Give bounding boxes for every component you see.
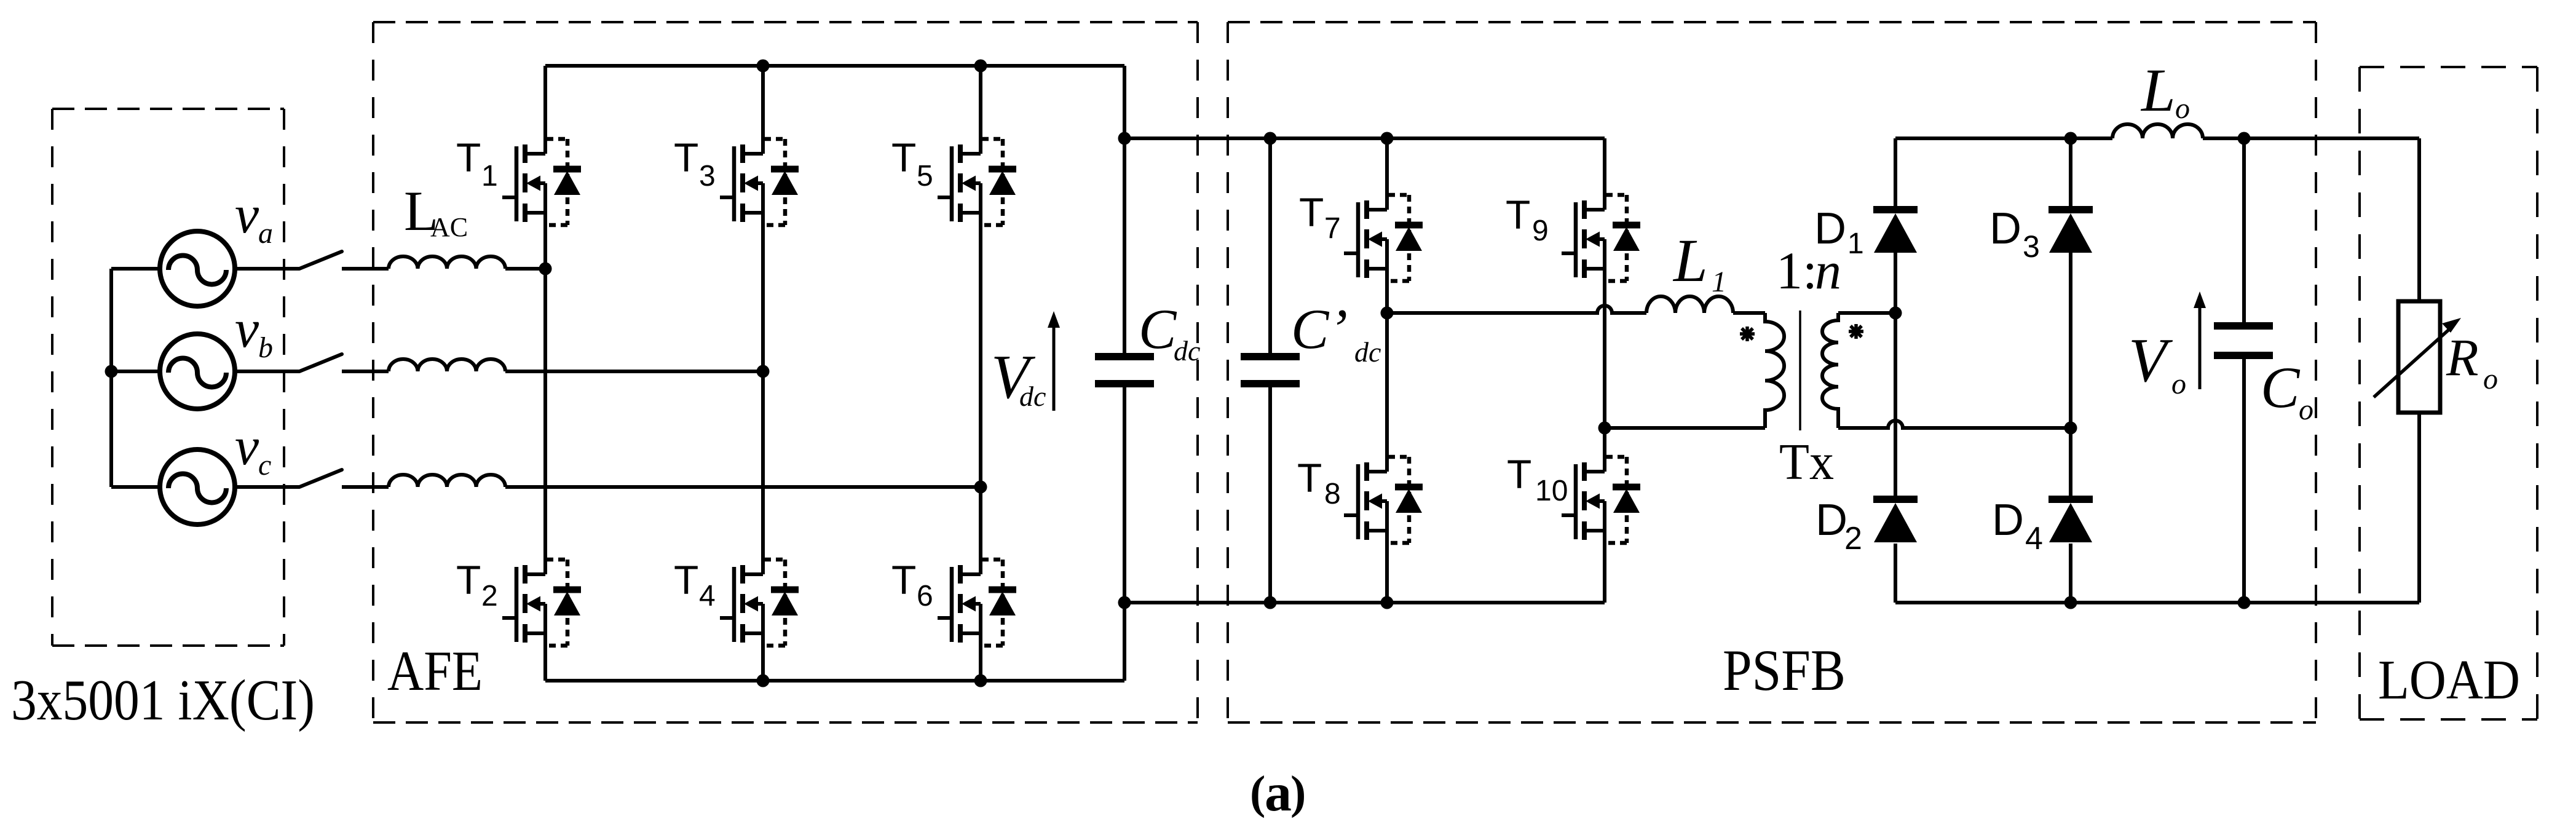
svg-text:D: D [1989, 204, 2021, 253]
transistor T10 (MOSFET) [1562, 457, 1640, 543]
svg-text:a: a [258, 217, 273, 250]
junction: bottom bus at T6 leg [974, 675, 987, 687]
label Vdc with arrow [1053, 325, 1056, 411]
svg-text:C’: C’ [1291, 298, 1348, 360]
svg-text:dc: dc [1019, 381, 1046, 412]
wire: rectifier bottom rail [1895, 601, 2419, 604]
svg-text:1: 1 [481, 160, 498, 192]
svg-text:dc: dc [1174, 335, 1200, 366]
svg-text:T: T [1506, 192, 1530, 237]
transformer core [1799, 311, 1801, 430]
wire: Co leg [2242, 138, 2246, 603]
transistor T5 (MOSFET) [938, 139, 1016, 225]
svg-text:T: T [891, 557, 916, 603]
svg-text:D: D [1992, 496, 2024, 545]
transistor T6 (MOSFET) [938, 560, 1016, 646]
wire: LAC a to bridge leg [505, 267, 545, 271]
wire: D3/D4 leg [2069, 138, 2072, 603]
junction: phase c node [974, 481, 987, 494]
svg-text:b: b [258, 331, 273, 364]
wire: C'dc leg [1268, 138, 1272, 603]
wire: T1/T2 bridge leg [543, 66, 547, 681]
junction: phase b node [757, 365, 770, 378]
diode D1 [1873, 210, 1918, 253]
svg-text:T: T [674, 135, 698, 180]
svg-text:1: 1 [1847, 228, 1864, 260]
switch: phase b contactor blade [299, 354, 342, 371]
wire: rectifier top rail [1895, 137, 2112, 140]
junction: bottom bus at T4 leg [757, 675, 770, 687]
source vc (AC source) [160, 449, 235, 524]
svg-text:): ) [1290, 767, 1306, 818]
inductor L1 (resonant) [1646, 296, 1733, 313]
svg-text:10: 10 [1535, 475, 1568, 507]
wire: T7/T8 bridge leg [1385, 138, 1389, 603]
polarity dot: secondary [1849, 324, 1863, 339]
junction: T8 source at DC- [1381, 596, 1394, 609]
transistor T2 (MOSFET) [502, 560, 581, 646]
diode D2 [1873, 499, 1918, 542]
wire: load negative riser [2417, 413, 2421, 603]
wire: DC-link riser (Cdc leg) [1123, 66, 1126, 681]
resistor Ro (variable) [2398, 301, 2440, 413]
capacitor Co [2214, 322, 2273, 330]
svg-text:T: T [456, 557, 481, 603]
svg-text:PSFB: PSFB [1723, 638, 1846, 703]
wire: neutral to vb [111, 370, 162, 373]
wire: primary return to midpoint B [1605, 426, 1765, 430]
svg-text:T: T [1297, 455, 1322, 501]
transistor T8 (MOSFET) [1344, 457, 1423, 543]
source vb (AC source) [160, 334, 235, 409]
box: LOAD [2360, 66, 2537, 68]
svg-text:o: o [2483, 363, 2498, 395]
box: PSFB converter [1228, 21, 2316, 23]
capacitor C'dc [1241, 353, 1300, 360]
junction: bottom rail at D4 [2064, 596, 2077, 609]
transistor T3 (MOSFET) [720, 139, 799, 225]
wire: DC+ top bus [545, 64, 1124, 68]
wire: load positive riser [2417, 138, 2421, 301]
svg-text:T: T [1507, 451, 1531, 497]
junction: C'dc top [1264, 132, 1277, 145]
wire: neutral to vc [111, 485, 162, 489]
svg-text:T: T [891, 135, 916, 180]
junction: top bus at T3 leg [757, 60, 770, 73]
junction: output node at Co [2238, 132, 2251, 145]
transistor T1 (MOSFET) [502, 139, 581, 225]
inductor LAC phase b [389, 359, 505, 371]
capacitor Cdc [1095, 353, 1154, 360]
wire: DC- bottom bus [545, 679, 1124, 683]
junction: DC- rail tap [1118, 596, 1131, 609]
svg-text:7: 7 [1324, 212, 1341, 245]
svg-text:1:: 1: [1776, 241, 1817, 300]
wire: switch c to LAC [342, 485, 389, 489]
svg-text:c: c [258, 449, 271, 481]
svg-text:v: v [235, 299, 259, 359]
wire: secondary bottom to D3/D4 (hop over D1/D2 leg) [1838, 421, 2071, 428]
junction: secondary bottom at D3/D4 [2064, 422, 2077, 435]
diode D4 [2049, 499, 2093, 542]
svg-text:2: 2 [481, 580, 498, 612]
junction: return node at Co [2238, 596, 2251, 609]
wire: switch a to LAC [342, 267, 389, 271]
svg-text:L: L [2140, 56, 2176, 124]
svg-text:v: v [235, 417, 259, 477]
wire: LAC c to bridge leg [505, 485, 981, 489]
svg-text:T: T [1299, 189, 1324, 235]
svg-text:1: 1 [1712, 266, 1726, 298]
svg-text:9: 9 [1532, 215, 1549, 247]
polarity dot: primary [1740, 326, 1755, 341]
inductor Lo (output filter) [2112, 124, 2203, 138]
transistor T9 (MOSFET) [1562, 195, 1640, 281]
svg-text:C: C [2261, 355, 2301, 420]
svg-text:AFE: AFE [387, 639, 483, 702]
svg-text:T: T [674, 557, 698, 603]
switch: phase c contactor blade [299, 470, 342, 487]
box: 3-phase grid simulator 3x5001 iX(CI) [52, 108, 284, 110]
svg-text:o: o [2299, 394, 2313, 426]
svg-text:3: 3 [699, 160, 716, 192]
wire: midpoint A to L1 (hop over T9 leg) [1387, 306, 1646, 313]
wire: DC+ rail to PSFB [1124, 137, 1605, 140]
box: AFE converter [373, 21, 1198, 23]
transistor T4 (MOSFET) [720, 560, 799, 646]
wire: va to switch [232, 267, 299, 271]
wire: switch b to LAC [342, 370, 389, 373]
wire: secondary top to D1/D2 [1838, 311, 1895, 315]
svg-text:D: D [1814, 204, 1846, 253]
transformer Tx secondary winding [1822, 313, 1838, 428]
svg-text:o: o [2175, 92, 2190, 125]
wire: vc to switch [232, 485, 299, 489]
inductor LAC phase a [389, 256, 505, 269]
svg-text:AC: AC [430, 212, 468, 242]
svg-text:4: 4 [699, 580, 716, 612]
svg-text:8: 8 [1324, 478, 1341, 510]
svg-text:L: L [1672, 226, 1708, 295]
label Vo with arrow [2199, 307, 2202, 389]
wire: LAC b to bridge leg [505, 370, 763, 373]
junction: top rail at D3 [2064, 132, 2077, 145]
svg-text:(: ( [1250, 767, 1265, 818]
svg-text:4: 4 [2025, 521, 2043, 556]
wire: T9/T10 bridge leg [1603, 138, 1606, 603]
svg-text:LOAD: LOAD [2378, 649, 2520, 711]
wire: T3/T4 bridge leg [761, 66, 765, 681]
svg-text:R: R [2446, 328, 2479, 387]
svg-text:3x5001 iX(CI): 3x5001 iX(CI) [11, 668, 315, 732]
wire: neutral to va [111, 267, 162, 271]
junction: neutral node [105, 365, 118, 378]
svg-text:T: T [456, 135, 481, 180]
wire: L1 to transformer primary [1733, 311, 1765, 315]
junction: bridge midpoint A [1381, 307, 1394, 320]
wire: D1/D2 leg [1894, 138, 1897, 603]
svg-text:2: 2 [1844, 521, 1862, 556]
junction: C'dc bottom [1264, 596, 1277, 609]
wire: Lo to load [2203, 137, 2419, 140]
source va (AC source) [160, 231, 235, 306]
diode D3 [2049, 210, 2093, 253]
junction: DC+ rail tap [1118, 132, 1131, 145]
junction: phase a node [539, 263, 552, 275]
svg-text:C: C [1139, 298, 1177, 360]
svg-text:a: a [1265, 763, 1292, 823]
junction: secondary top at D1/D2 [1889, 307, 1902, 320]
wire: DC- rail to PSFB [1124, 601, 1605, 604]
transformer Tx primary winding [1765, 313, 1784, 428]
svg-text:D: D [1815, 496, 1847, 545]
wire: T5/T6 bridge leg [979, 66, 982, 681]
svg-text:5: 5 [917, 160, 933, 192]
svg-text:6: 6 [917, 580, 933, 612]
svg-text:dc: dc [1354, 336, 1381, 368]
wire: vb to switch [232, 370, 299, 373]
svg-text:o: o [2171, 368, 2186, 400]
inductor LAC phase c [389, 475, 505, 487]
svg-text:3: 3 [2023, 229, 2040, 264]
transistor T7 (MOSFET) [1344, 195, 1423, 281]
svg-text:V: V [2128, 326, 2173, 395]
wire: neutral bus vertical [109, 269, 113, 487]
junction: bridge midpoint B (primary return) [1598, 422, 1611, 435]
svg-text:v: v [235, 185, 259, 245]
switch: phase a contactor blade [299, 251, 342, 269]
junction: T7 drain at DC+ [1381, 132, 1394, 145]
svg-text:Tx: Tx [1779, 433, 1834, 491]
junction: top bus at T5 leg [974, 60, 987, 73]
